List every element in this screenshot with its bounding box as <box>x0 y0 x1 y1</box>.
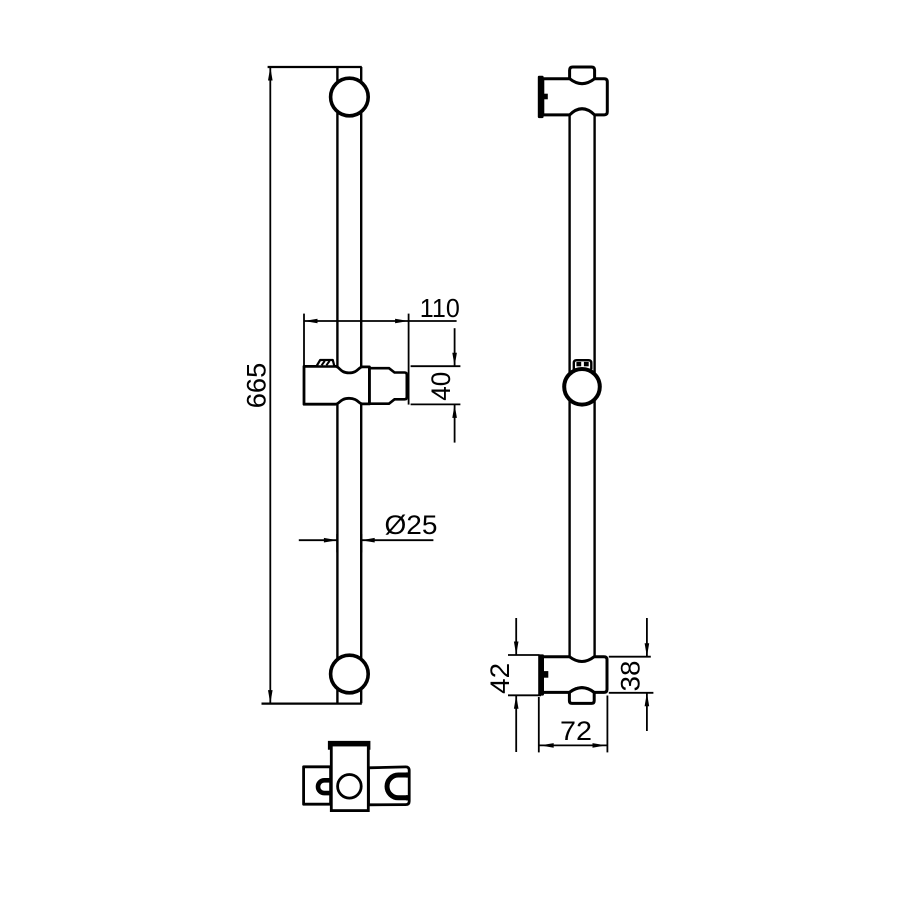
42 arrow up <box>514 695 519 709</box>
top wall-mount circle <box>331 78 369 116</box>
72 right extension line <box>606 696 608 753</box>
42 arrow down <box>514 642 519 656</box>
slider divider line <box>368 367 371 404</box>
plan left knob (thick open shape) <box>318 780 331 793</box>
Ø25 left dimension line <box>299 539 338 541</box>
bottom end-cap dome <box>569 688 594 693</box>
svg-text:665: 665 <box>242 363 272 409</box>
665 arrow up <box>268 67 273 81</box>
plan C-hook end cap bottom <box>406 795 410 800</box>
40 lower dimension line <box>454 404 456 442</box>
42 upper dimension line <box>515 618 517 655</box>
72 arrow right <box>593 743 607 748</box>
plan left block <box>304 767 331 804</box>
top bracket body <box>543 79 608 115</box>
bottom bracket wall plate <box>538 654 544 695</box>
110 right extension line <box>408 314 410 405</box>
plan central circle <box>338 775 362 799</box>
rail top edge / top extension line of 665 <box>268 66 362 68</box>
top bracket end-cap tab <box>570 67 595 79</box>
bottom bracket end-cap tab <box>569 692 594 703</box>
40 arrow up <box>452 404 457 418</box>
bottom bracket nub <box>544 671 548 678</box>
38 arrow down <box>645 643 650 657</box>
Ø25 arrow pointing left <box>361 538 375 543</box>
Ø25 left tick <box>336 534 338 552</box>
latch hatch mark 1 <box>322 361 325 365</box>
svg-text:Ø25: Ø25 <box>385 510 438 540</box>
plan central body <box>331 745 368 811</box>
bottom wall-mount circle <box>331 655 369 693</box>
clamp lever slot 2 <box>584 362 589 366</box>
rail front view: right line <box>360 67 362 703</box>
38 upper dimension line <box>646 618 648 657</box>
svg-text:42: 42 <box>485 663 515 694</box>
slider clamp lever side view <box>574 360 592 369</box>
110 arrow left <box>304 319 318 324</box>
baseline / bottom extension line of 665 <box>262 702 362 704</box>
40 arrow down <box>452 353 457 367</box>
38 lower dimension line <box>646 693 648 731</box>
72 arrow left <box>540 743 554 748</box>
top bracket wall plate <box>538 76 544 118</box>
38 top extension line <box>609 656 651 658</box>
bottom bracket body <box>542 657 608 693</box>
plan top thick bar <box>328 741 371 750</box>
svg-text:72: 72 <box>560 716 592 746</box>
665 dimension line <box>269 67 271 704</box>
slider clamp latch (small lever, top-left) <box>316 360 334 366</box>
svg-text:40: 40 <box>426 372 456 401</box>
svg-text:110: 110 <box>420 293 460 323</box>
72 left extension line <box>538 697 540 752</box>
top bracket nub <box>544 94 548 100</box>
rail front view: left line <box>336 67 338 703</box>
38 arrow up <box>645 693 650 707</box>
110 dimension line <box>304 320 457 322</box>
plan right block <box>369 767 410 805</box>
slider ring side view (circle) <box>564 369 600 405</box>
plan C-hook end cap top <box>406 772 410 777</box>
slider holder (right part) front view <box>369 368 406 404</box>
40 upper dimension line <box>454 328 456 366</box>
rail side view upper segment <box>570 114 595 373</box>
40 bottom extension line <box>411 403 461 405</box>
110 left extension line <box>303 314 305 366</box>
plan right C-hook <box>387 775 409 798</box>
svg-text:38: 38 <box>616 661 646 692</box>
38 bottom extension line <box>609 692 654 694</box>
72 dimension line <box>539 744 608 746</box>
42 bottom extension line <box>508 694 541 696</box>
clamp lever slot 1 <box>576 362 581 366</box>
Ø25 right dimension line <box>361 539 433 541</box>
Ø25 arrow pointing right <box>324 538 338 543</box>
latch hatch mark 2 <box>326 361 329 365</box>
rail side view lower segment <box>570 401 595 657</box>
110 arrow right <box>395 319 409 324</box>
Ø25 right tick <box>360 534 362 552</box>
42 top extension line <box>508 654 540 656</box>
slider body front view (white fill over rail) <box>304 366 369 404</box>
40 top extension line <box>411 365 461 367</box>
42 lower dimension line <box>515 695 517 752</box>
665 arrow down <box>268 690 273 704</box>
